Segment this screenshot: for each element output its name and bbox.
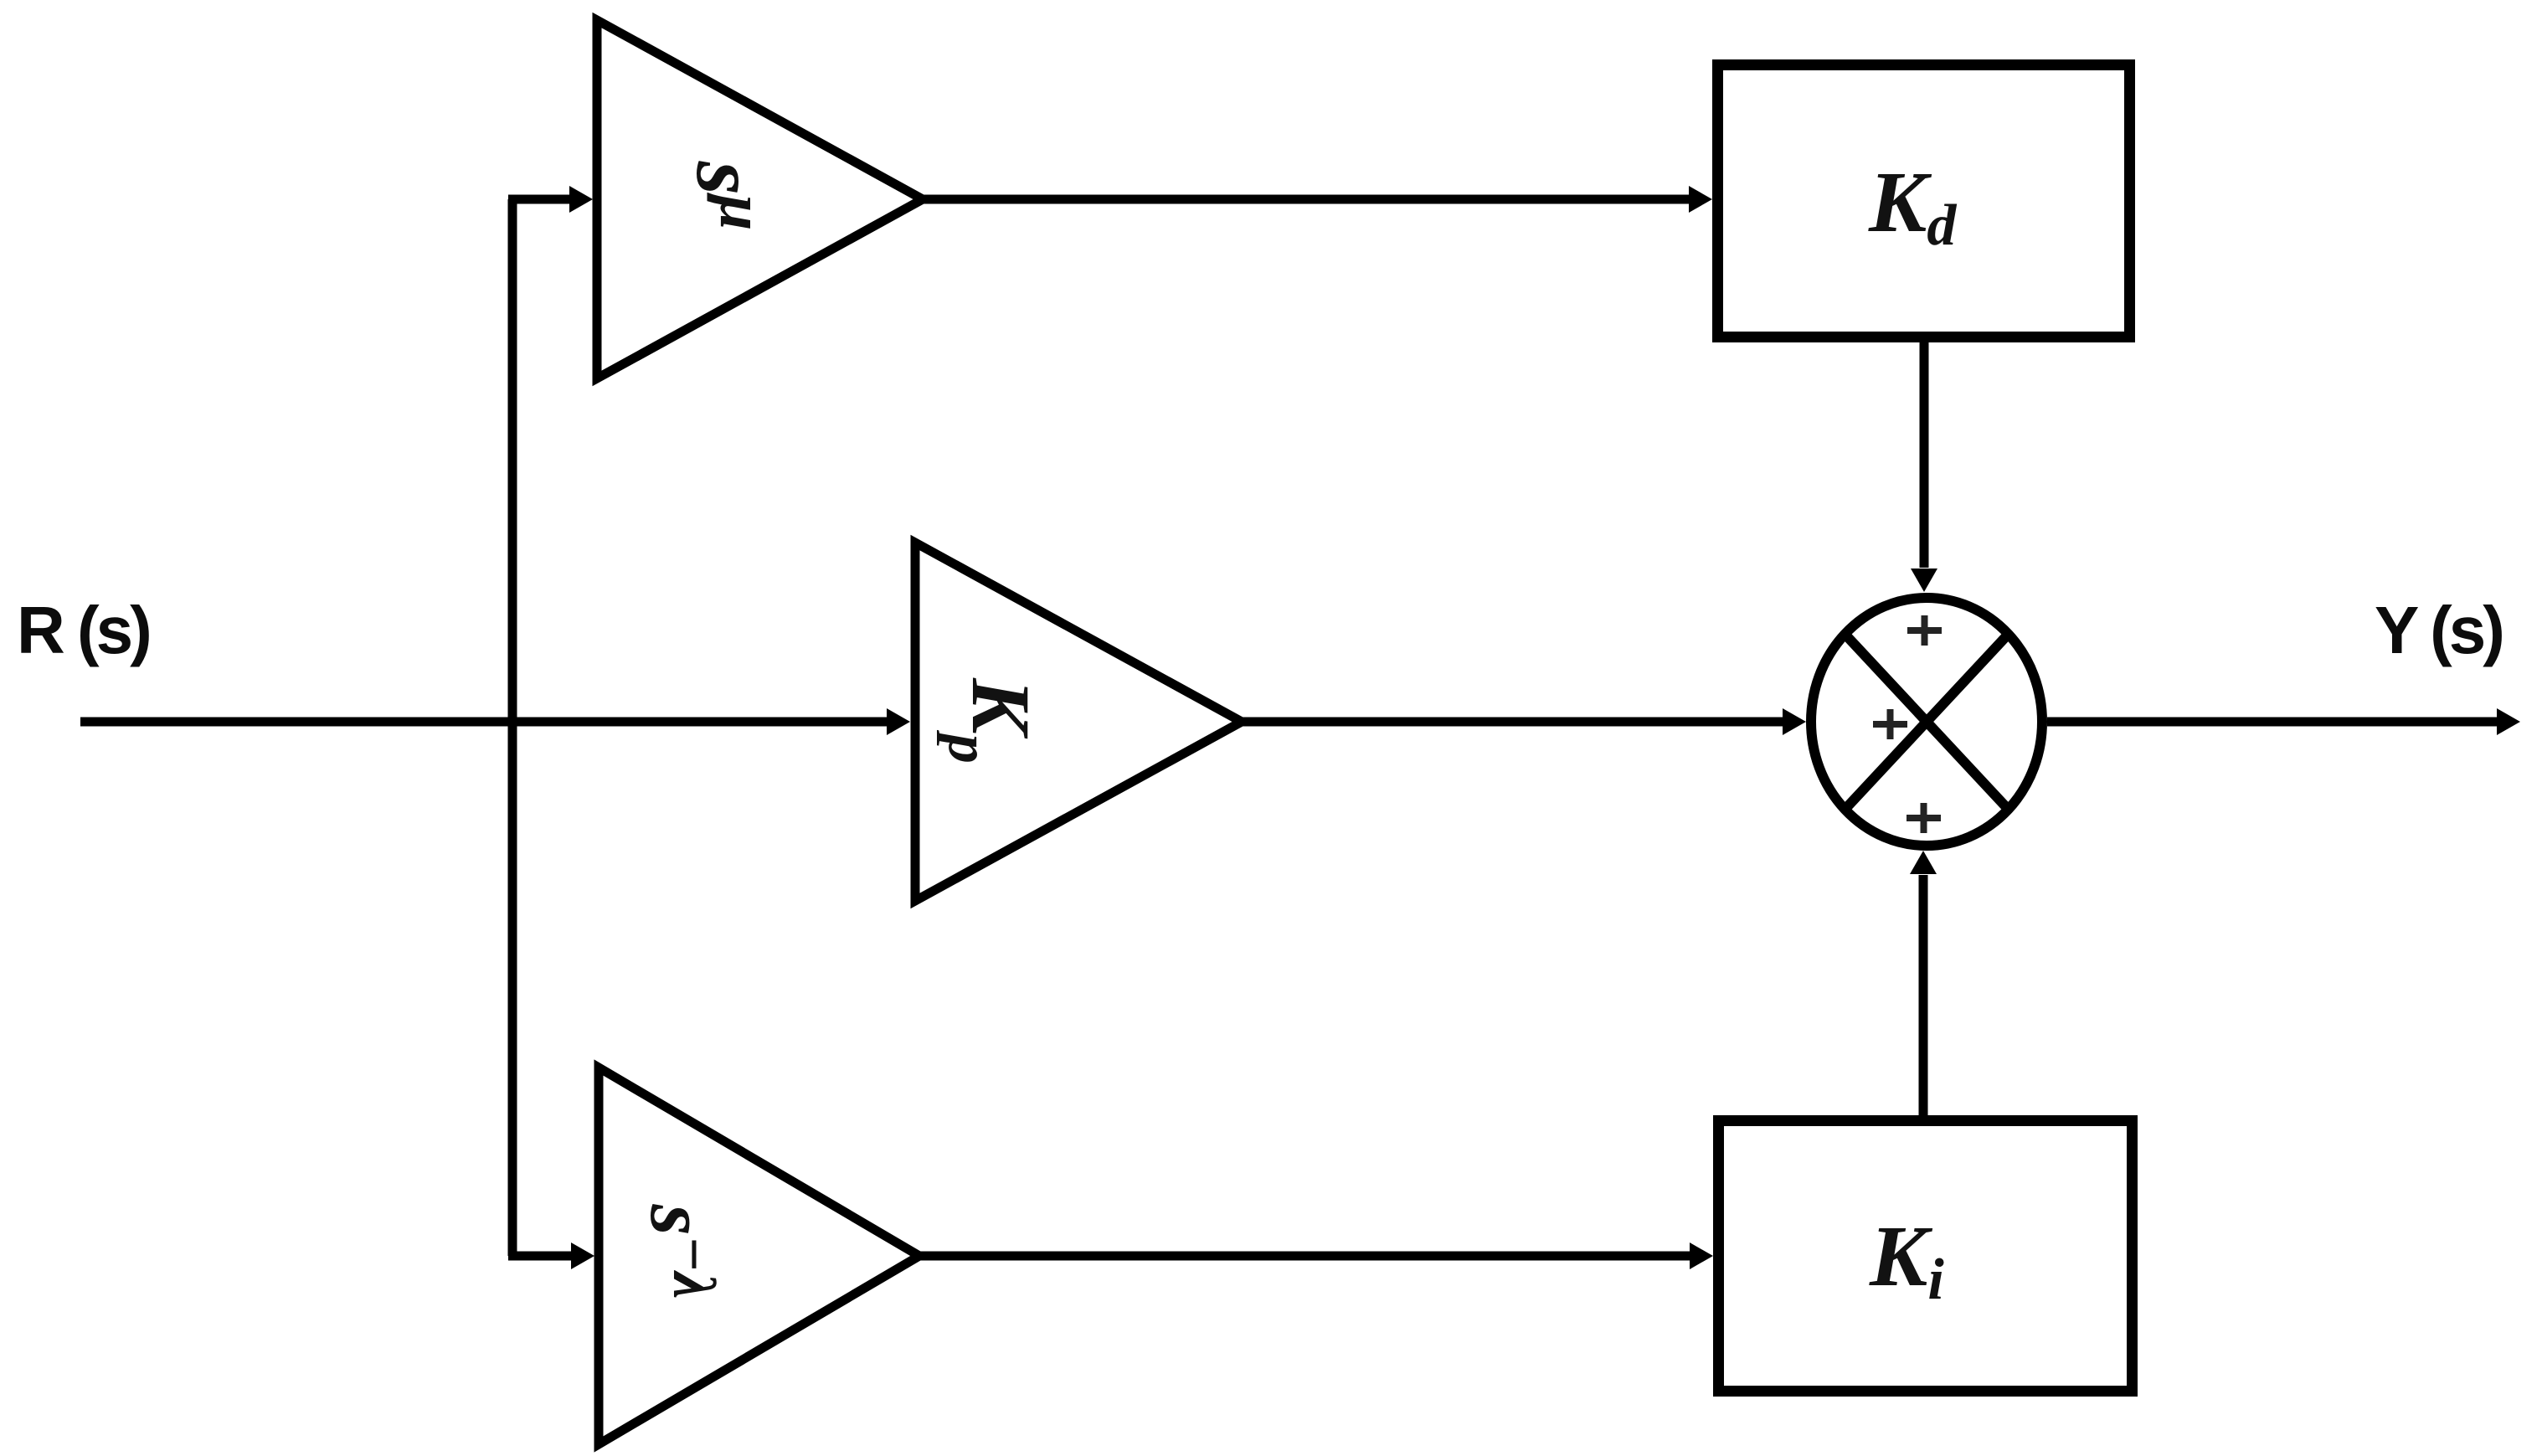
label Kp	[936, 677, 1047, 764]
wire Kd to summing junction	[1920, 337, 1929, 568]
block Kd box	[1718, 65, 2130, 337]
wire summing junction output to Y(s)	[2047, 718, 2498, 727]
summing junction X diagonal 1	[1845, 634, 2008, 809]
wire main input R(s) to Kp triangle	[80, 718, 888, 727]
svg-text:R (s): R (s)	[17, 593, 149, 667]
wire branch vertical	[508, 199, 517, 1256]
amplifier triangle s^-lambda	[599, 1068, 919, 1444]
plus sign left	[1873, 709, 1907, 739]
wire Kp triangle to summing junction	[1242, 718, 1783, 727]
wire top branch stub	[508, 195, 570, 204]
svg-text:Y (s): Y (s)	[2375, 593, 2502, 667]
amplifier triangle s^mu	[597, 20, 923, 378]
wire s^-lambda triangle to Ki box	[919, 1252, 1690, 1261]
label s^mu	[678, 161, 777, 231]
summing junction circle	[1811, 598, 2042, 846]
block Ki box	[1719, 1121, 2133, 1392]
wire Ki to summing junction	[1919, 875, 1928, 1115]
wire bottom branch stub	[508, 1252, 572, 1261]
amplifier triangle Kp	[915, 543, 1242, 901]
summing junction X diagonal 2	[1845, 634, 2008, 809]
label s^-lambda	[634, 1204, 728, 1299]
plus sign top	[1907, 615, 1942, 646]
plus sign bottom	[1906, 803, 1941, 833]
wire s^mu triangle to Kd box	[923, 195, 1690, 204]
